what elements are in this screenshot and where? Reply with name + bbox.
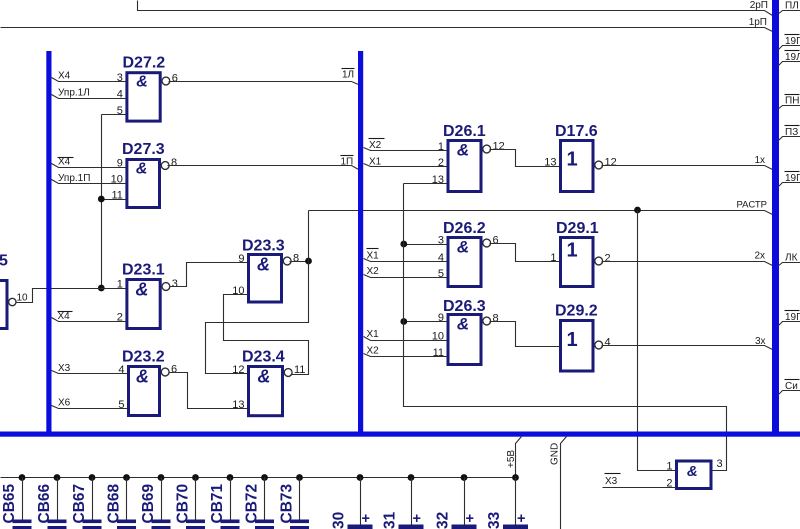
wire right-edge tap net Си @y=390.5 bbox=[778, 391, 800, 396]
logic gate bottom AND (&) near GND area bbox=[677, 461, 712, 489]
svg-text:1П: 1П bbox=[341, 157, 354, 168]
wire D23.1 output 3 up to D23.3 pin 9 bbox=[170, 263, 248, 287]
svg-text:12: 12 bbox=[493, 141, 505, 153]
wire X1 tap from middle bus to D26.1 pin 2 bbox=[364, 164, 447, 167]
svg-text:&: & bbox=[136, 280, 149, 300]
svg-text:9: 9 bbox=[238, 253, 244, 265]
svg-text:X1: X1 bbox=[369, 157, 382, 168]
svg-text:1рП: 1рП bbox=[749, 17, 767, 28]
svg-text:2рП: 2рП bbox=[750, 0, 768, 11]
svg-text:3: 3 bbox=[172, 278, 178, 290]
wire D23.4 output 11 feedback to D23.3 pin 10 bbox=[224, 295, 309, 375]
junction on РАСТР rail feeding bottom AND gate bbox=[634, 207, 641, 214]
wire right-edge tap net 19П @y=182.5 bbox=[778, 183, 800, 188]
polarized capacitor C32 bbox=[461, 474, 468, 481]
svg-text:2: 2 bbox=[438, 157, 444, 169]
svg-text:ЛК: ЛК bbox=[785, 253, 798, 264]
svg-text:+: + bbox=[362, 511, 370, 527]
svg-text:СВ68: СВ68 bbox=[106, 483, 123, 523]
svg-text:11: 11 bbox=[433, 347, 444, 359]
wire X4 tap from left bus to D27.2 pin 3 bbox=[52, 78, 126, 82]
svg-text:X4: X4 bbox=[58, 311, 71, 322]
wire D29.1 output 2 to right bus (net 2x) bbox=[602, 262, 773, 266]
svg-text:СВ65: СВ65 bbox=[1, 483, 18, 523]
svg-text:X2: X2 bbox=[369, 140, 382, 151]
wire D26.3 output 8 to D29.2 input bbox=[490, 322, 560, 347]
left power bus (vertical blue) bbox=[46, 51, 51, 437]
capacitor СВ66 bbox=[54, 474, 61, 481]
wire right-edge tap net 19Г @y=45.5 bbox=[778, 46, 800, 51]
wire X1-inv tap from middle bus to D26.2 pin 4 bbox=[364, 259, 447, 262]
svg-text:D23.4: D23.4 bbox=[242, 349, 285, 366]
svg-text:1: 1 bbox=[566, 329, 577, 351]
vertical feed wire x=101 (D27.2 pin5 / D27.3 pin11 / D23.1 pin1 net) bbox=[101, 115, 103, 289]
junction at D26.3 pin 9 bbox=[400, 318, 407, 325]
svg-text:&: & bbox=[457, 315, 469, 334]
wire right-edge tap net ПЗ @y=136.5 bbox=[778, 137, 800, 142]
wire right-edge tap net 19Л @y=61.5 bbox=[778, 62, 800, 67]
svg-text:5: 5 bbox=[118, 399, 124, 411]
svg-text:1Л: 1Л bbox=[342, 70, 354, 81]
svg-text:19Г: 19Г bbox=[785, 312, 800, 323]
svg-text:СВ67: СВ67 bbox=[71, 484, 88, 524]
svg-text:D26.1: D26.1 bbox=[443, 123, 486, 140]
capacitor СВ71 bbox=[227, 474, 234, 481]
svg-text:Си: Си bbox=[785, 381, 798, 392]
wire X3 tap from left bus to D23.2 pin 4 bbox=[52, 371, 128, 374]
partial logic gate (cut at left edge, pin 5 visible) bbox=[0, 281, 7, 329]
wire partial-gate output 10 to D23.1 pin 1 (crosses left bus) bbox=[16, 289, 126, 303]
capacitor СВ73 bbox=[296, 474, 303, 481]
polarized capacitor C31 bbox=[408, 474, 415, 481]
svg-text:4: 4 bbox=[438, 252, 444, 264]
svg-text:19П: 19П bbox=[785, 173, 800, 184]
polarized capacitor C33 bbox=[512, 474, 519, 481]
svg-text:&: & bbox=[257, 255, 270, 275]
wire D23.2 output 6 to D23.4 pin 13 bbox=[169, 373, 248, 409]
svg-text:X2: X2 bbox=[367, 346, 380, 357]
svg-text:D26.2: D26.2 bbox=[443, 220, 486, 237]
wire net 1rP: from left edge to right bus bbox=[1, 28, 773, 32]
right bus (vertical blue) bbox=[772, 0, 779, 437]
wire D26.1 pin 13 from feedback riser bbox=[404, 183, 447, 185]
wire X4-inv tap from left bus to D23.1 pin 2 bbox=[52, 318, 126, 322]
svg-text:&: & bbox=[136, 367, 149, 387]
wire D26.2 pin 3 from feedback riser bbox=[404, 244, 447, 246]
power +5B feed from ground bus bbox=[516, 437, 522, 478]
svg-text:1: 1 bbox=[117, 279, 123, 291]
wire D27.2 output 6 to middle bus (net 1L) bbox=[169, 82, 359, 85]
wire D27.3 pin 11 from vertical feed bbox=[102, 199, 126, 201]
svg-text:СВ66: СВ66 bbox=[36, 483, 53, 523]
svg-text:2: 2 bbox=[605, 253, 611, 265]
svg-text:D27.3: D27.3 bbox=[122, 141, 165, 158]
svg-text:ПЛ: ПЛ bbox=[785, 1, 799, 12]
svg-text:33: 33 bbox=[486, 511, 503, 529]
wire X4-inv tap from left bus to D27.3 pin 9 bbox=[52, 164, 126, 168]
svg-text:32: 32 bbox=[435, 512, 452, 529]
wire D29.2 output 4 to right bus (net 3x) bbox=[602, 346, 773, 350]
svg-text:8: 8 bbox=[171, 157, 177, 169]
junction at D23.1 pin 1 feed bbox=[98, 285, 105, 292]
svg-text:D27.2: D27.2 bbox=[123, 55, 166, 72]
svg-text:12: 12 bbox=[605, 157, 617, 169]
wire net 2rP: vertical drop from top edge then right to right bus bbox=[138, 1, 773, 16]
svg-text:6: 6 bbox=[172, 73, 178, 85]
svg-text:Упр.1П: Упр.1П bbox=[58, 173, 90, 184]
svg-text:X6: X6 bbox=[58, 398, 71, 409]
svg-text:+: + bbox=[466, 511, 474, 527]
svg-text:6: 6 bbox=[493, 235, 499, 247]
svg-text:8: 8 bbox=[293, 253, 299, 265]
svg-text:X3: X3 bbox=[605, 476, 618, 487]
junction of D23.3 output / RASTR riser bbox=[305, 258, 312, 265]
wire right-edge tap net 19Г @y=321.5 bbox=[778, 322, 800, 327]
wire D23.3 output 8 to junction bbox=[290, 261, 309, 263]
svg-text:4: 4 bbox=[118, 364, 124, 376]
capacitor СВ69 bbox=[158, 474, 165, 481]
svg-text:X3: X3 bbox=[58, 363, 71, 374]
wire D27.3 output 8 to middle bus (net 1P) bbox=[168, 166, 359, 170]
wire X1 tap from middle bus to D26.3 pin 10 bbox=[364, 337, 447, 341]
wire feedback riser x=404 (AND out to D26.1-13/D26.2-3/D26.3-9) bbox=[404, 184, 727, 471]
svg-text:D23.2: D23.2 bbox=[122, 349, 165, 366]
svg-text:5: 5 bbox=[438, 268, 444, 280]
svg-text:СВ70: СВ70 bbox=[175, 484, 192, 524]
svg-text:D17.6: D17.6 bbox=[555, 123, 598, 140]
svg-text:1: 1 bbox=[438, 141, 444, 153]
capacitor СВ68 bbox=[123, 474, 130, 481]
junction at D26.2 pin 3 bbox=[400, 241, 407, 248]
svg-text:&: & bbox=[687, 463, 698, 480]
wire right-edge tap net ПЛ @y=10 bbox=[778, 11, 800, 15]
svg-text:+: + bbox=[413, 511, 421, 527]
svg-text:D29.1: D29.1 bbox=[556, 220, 599, 237]
svg-text:30: 30 bbox=[331, 512, 348, 529]
svg-text:8: 8 bbox=[493, 313, 499, 325]
svg-text:3x: 3x bbox=[755, 336, 766, 347]
svg-text:1: 1 bbox=[666, 461, 672, 473]
svg-text:&: & bbox=[258, 367, 271, 387]
svg-text:СВ69: СВ69 bbox=[140, 483, 157, 523]
svg-text:3: 3 bbox=[717, 458, 723, 470]
svg-text:12: 12 bbox=[232, 364, 244, 376]
svg-text:13: 13 bbox=[432, 174, 444, 186]
svg-text:Упр.1Л: Упр.1Л bbox=[58, 88, 90, 99]
wire RASTR riser up from junction bbox=[308, 211, 310, 262]
svg-text:СВ71: СВ71 bbox=[209, 483, 226, 523]
wire D17.6 output 12 to right bus (net 1x) bbox=[602, 166, 773, 170]
junction at D27.3 pin 11 feed bbox=[98, 196, 105, 203]
wire right-edge tap net ПН @y=105 bbox=[778, 106, 800, 110]
svg-text:&: & bbox=[457, 238, 469, 257]
output bubble and pin 10 of partial gate bbox=[9, 298, 16, 305]
svg-text:ПН: ПН bbox=[785, 96, 799, 107]
bottom ground bus (horizontal thick blue) bbox=[0, 432, 800, 437]
capacitor СВ70 bbox=[192, 474, 199, 481]
wire net РАСТР from D23.3 output to right bus bbox=[309, 211, 773, 215]
svg-text:19Г: 19Г bbox=[785, 36, 800, 47]
svg-text:X1: X1 bbox=[367, 329, 380, 340]
svg-text:1: 1 bbox=[550, 252, 556, 264]
svg-text:13: 13 bbox=[544, 157, 556, 169]
wire X2 tap from middle bus to D26.3 pin 11 bbox=[364, 354, 447, 357]
capacitor СВ72 bbox=[261, 474, 268, 481]
polarized capacitor C30 bbox=[357, 474, 364, 481]
svg-text:31: 31 bbox=[382, 511, 399, 529]
svg-text:РАСТР: РАСТР bbox=[736, 200, 767, 211]
wire X2 tap from middle bus to D26.2 pin 5 bbox=[364, 275, 447, 278]
wire capacitor supply rail bbox=[1, 477, 516, 479]
wire Upr.1L tap from left bus to D27.2 pin 4 bbox=[52, 95, 126, 99]
wire D26.1 output 12 to D17.6 pin 13 bbox=[490, 150, 560, 167]
svg-text:X2: X2 bbox=[367, 266, 380, 277]
svg-text:1: 1 bbox=[566, 240, 577, 262]
svg-text:2x: 2x bbox=[754, 251, 765, 262]
wire right-edge tap net ЛК @y=262 bbox=[778, 263, 800, 267]
ground GND feed line bbox=[561, 437, 567, 529]
capacitor СВ65 bbox=[19, 474, 26, 481]
wire X6 tap from left bus to D23.2 pin 5 bbox=[52, 406, 128, 409]
svg-text:10: 10 bbox=[17, 293, 29, 304]
wire D27.2 pin 5 from vertical feed bbox=[102, 114, 126, 116]
middle bus (vertical blue) bbox=[358, 51, 363, 437]
svg-text:GND: GND bbox=[550, 443, 561, 465]
wire D26.2 output 6 to D29.1 pin 1 bbox=[490, 244, 560, 262]
svg-text:13: 13 bbox=[232, 399, 244, 411]
svg-text:X1: X1 bbox=[367, 251, 380, 262]
svg-text:СВ72: СВ72 bbox=[244, 484, 261, 524]
wire D23.3 output 8 down-left to D23.4 pin 12 bbox=[206, 262, 309, 374]
svg-text:+5В: +5В bbox=[506, 450, 517, 468]
svg-text:X4: X4 bbox=[58, 157, 71, 168]
svg-text:&: & bbox=[136, 74, 148, 91]
svg-text:X4: X4 bbox=[58, 71, 71, 82]
wire D26.3 pin 9 from feedback riser bbox=[404, 321, 447, 323]
svg-text:19Л: 19Л bbox=[785, 52, 800, 63]
svg-text:4: 4 bbox=[605, 337, 611, 349]
svg-text:&: & bbox=[136, 161, 148, 178]
svg-text:D26.3: D26.3 bbox=[443, 298, 486, 315]
svg-text:D23.1: D23.1 bbox=[122, 262, 165, 279]
svg-text:D23.3: D23.3 bbox=[242, 238, 285, 255]
svg-text:&: & bbox=[457, 141, 469, 160]
wire X3-inv stub to bottom AND pin 2 bbox=[603, 487, 676, 489]
svg-text:D29.2: D29.2 bbox=[555, 303, 598, 320]
svg-text:1: 1 bbox=[566, 149, 577, 171]
svg-text:+: + bbox=[517, 511, 525, 527]
svg-text:СВ73: СВ73 bbox=[279, 483, 296, 523]
wire Upr.1P tap from left bus to D27.3 pin 10 bbox=[52, 180, 126, 184]
svg-text:10: 10 bbox=[232, 285, 244, 297]
svg-text:9: 9 bbox=[438, 312, 444, 324]
wire РАСТР drop to bottom AND gate pin 1 bbox=[638, 211, 676, 471]
svg-text:1x: 1x bbox=[754, 155, 765, 166]
wire X2-inv tap from middle bus to D26.1 pin 1 bbox=[364, 148, 447, 151]
svg-text:ПЗ: ПЗ bbox=[785, 127, 798, 138]
svg-text:6: 6 bbox=[171, 364, 177, 376]
capacitor СВ67 bbox=[89, 474, 96, 481]
svg-text:5: 5 bbox=[0, 253, 8, 270]
